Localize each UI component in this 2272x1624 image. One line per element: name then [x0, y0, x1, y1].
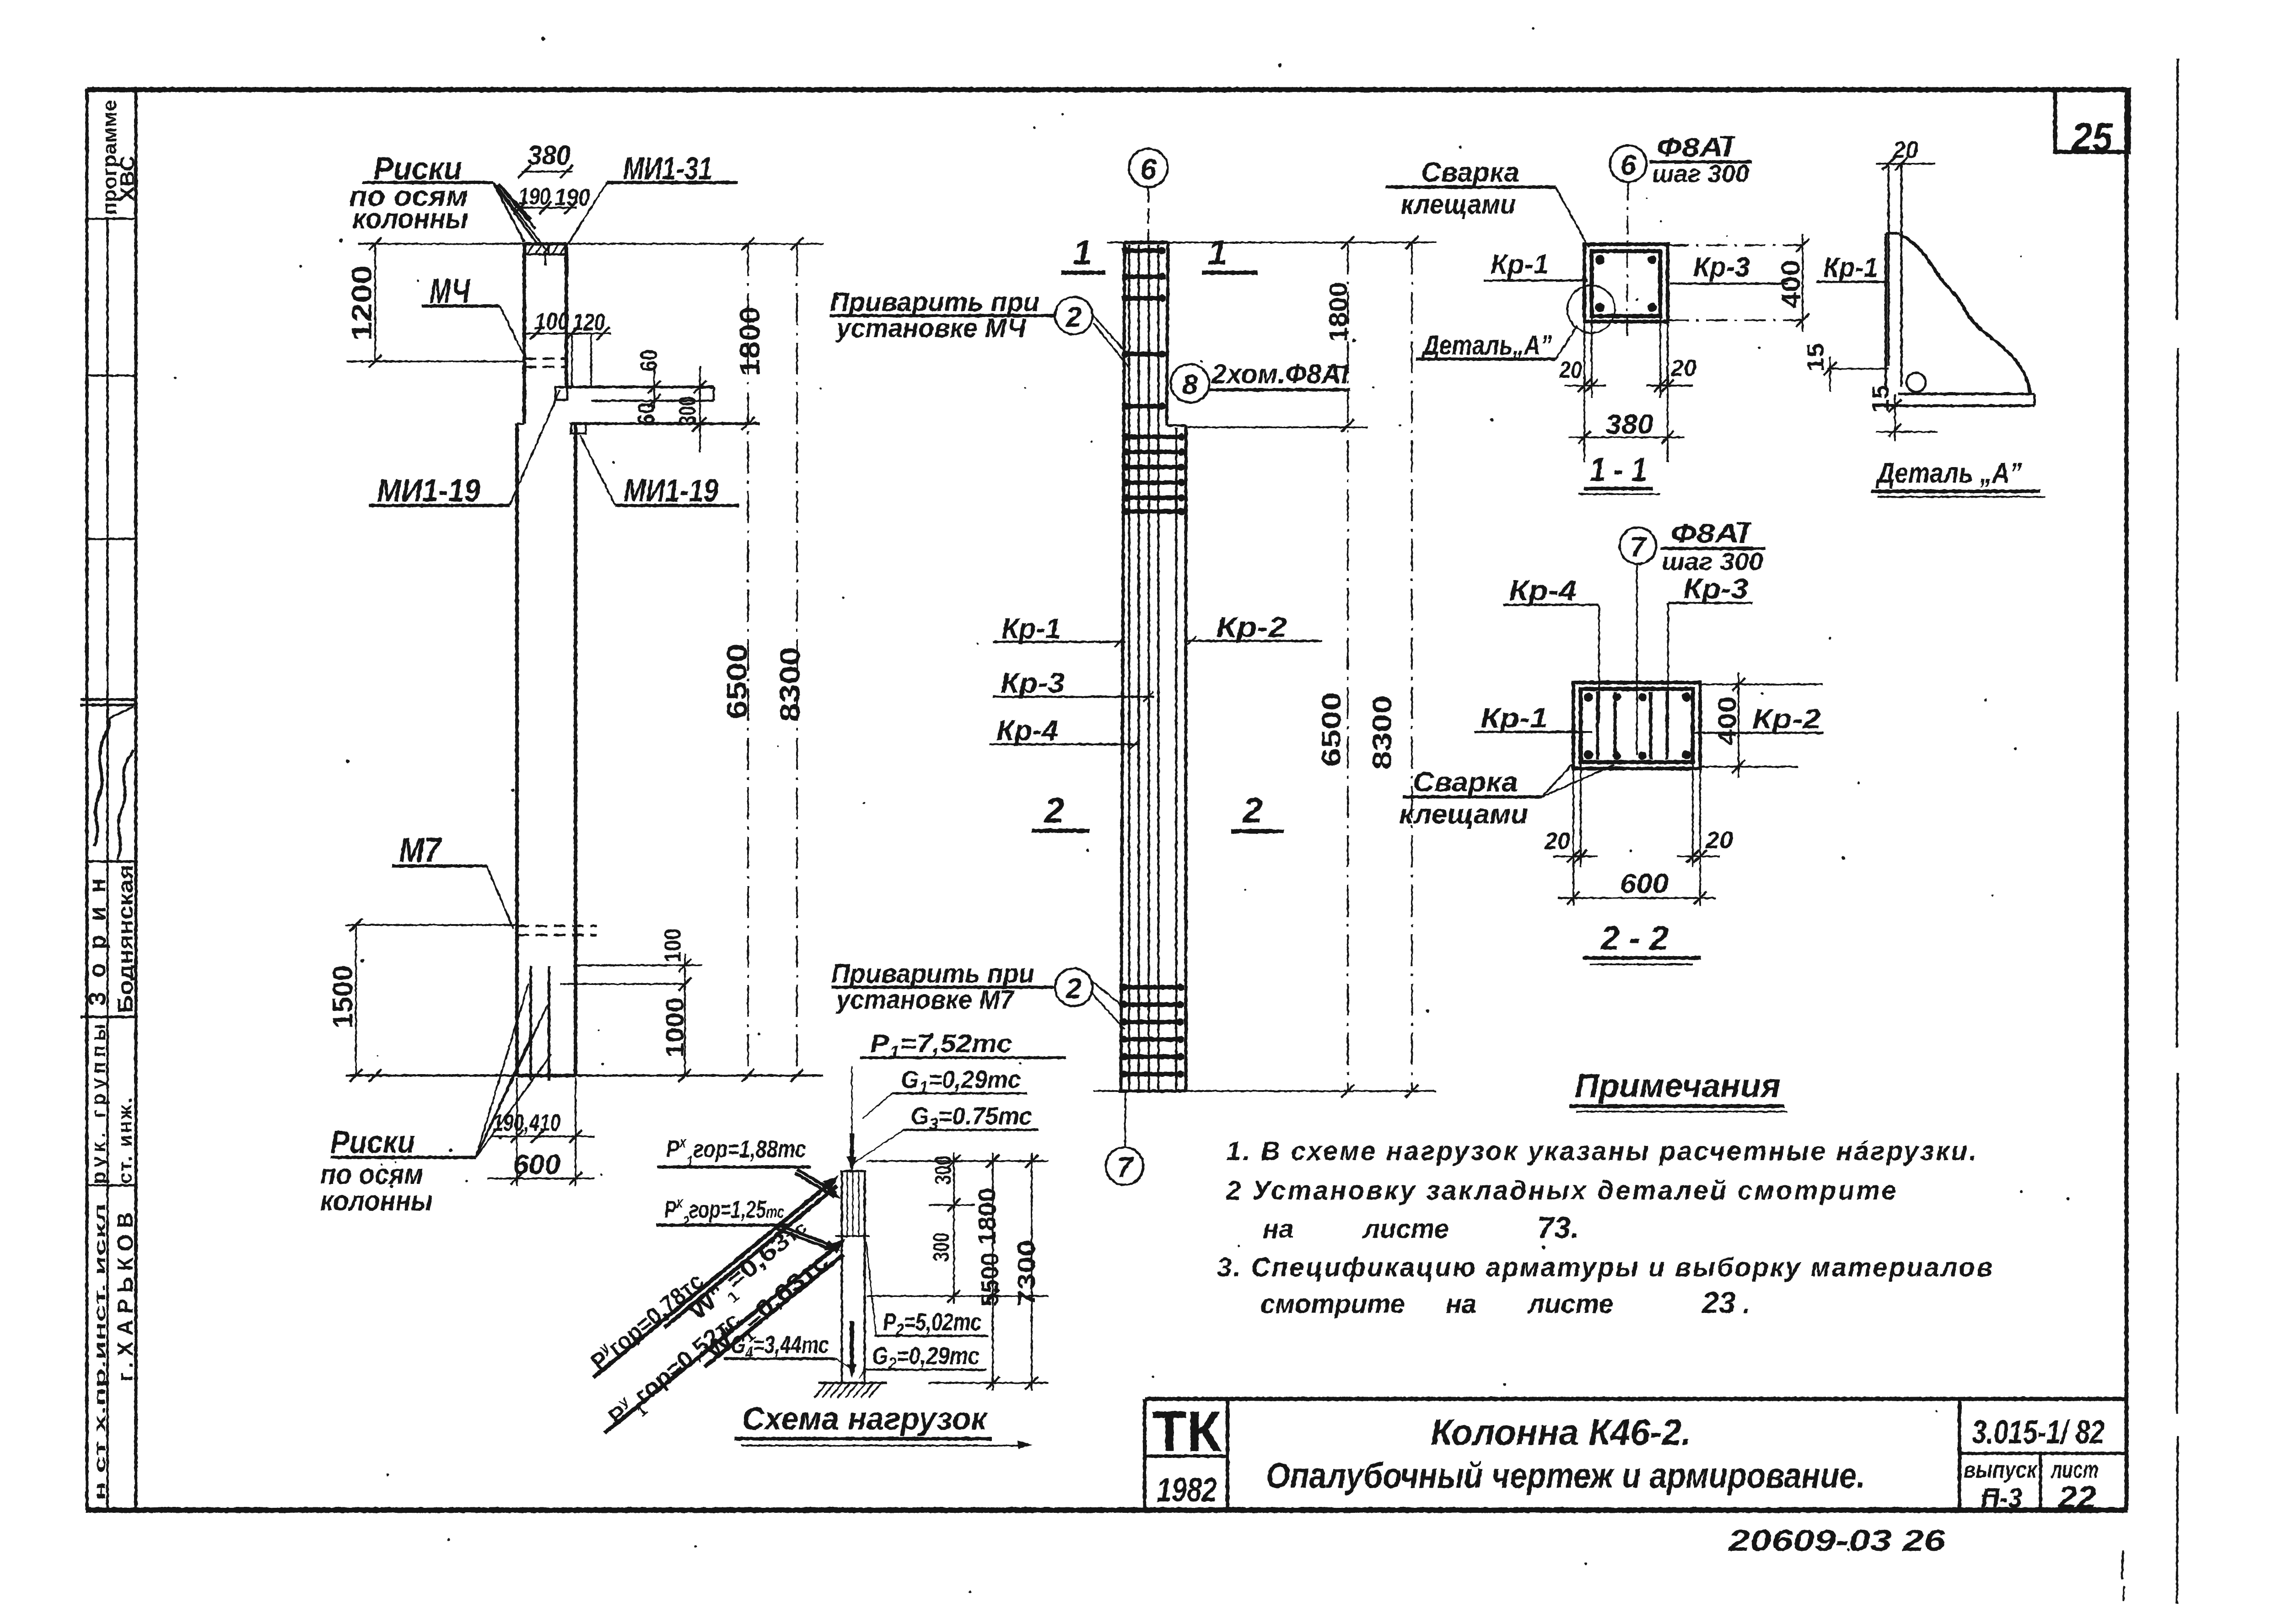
svg-text:15: 15 [1803, 343, 1829, 371]
svg-text:60: 60 [633, 403, 660, 425]
strip signatures [94, 718, 109, 846]
console bottom tick line [692, 419, 705, 432]
svg-text:Сварка: Сварка [1421, 157, 1519, 188]
svg-text:2: 2 [1044, 790, 1064, 830]
MCh plate dashed lines [524, 358, 566, 360]
svg-text:Колонна К46-2.: Колонна К46-2. [1431, 1412, 1691, 1452]
reinforcement column bottom [1119, 1090, 1186, 1093]
svg-text:22: 22 [2057, 1479, 2096, 1515]
svg-text:Опалубочный чертеж и армирован: Опалубочный чертеж и армирование. [1266, 1455, 1865, 1495]
svg-text:Кр-1: Кр-1 [1491, 249, 1549, 280]
svg-text:Кр-4: Кр-4 [996, 715, 1058, 747]
section 2-2 inner stirrups [1596, 692, 1599, 759]
dimension 20 20 section 1-1 [1583, 322, 1585, 462]
vypusk cell [2039, 1453, 2042, 1510]
long wind arrow upper [593, 1181, 833, 1378]
bottom bracket lines 100 dim [576, 964, 702, 966]
svg-text:1800: 1800 [974, 1188, 1001, 1245]
svg-text:300: 300 [674, 396, 701, 425]
circle mark 6 section 1-1 [1610, 145, 1647, 182]
svg-text:МИ1-19: МИ1-19 [624, 473, 718, 508]
svg-text:1000: 1000 [660, 997, 689, 1058]
dimension 600 section 2-2 [1558, 897, 1716, 899]
svg-text:6: 6 [1621, 150, 1637, 181]
svg-text:100: 100 [534, 308, 569, 335]
left strip double divider [81, 698, 136, 701]
dimension 380 at top [522, 171, 573, 172]
svg-text:2: 2 [1066, 973, 1082, 1005]
svg-text:1: 1 [1073, 233, 1092, 272]
svg-text:Деталь „А”: Деталь „А” [1875, 457, 2022, 489]
svg-text:Деталь„А”: Деталь„А” [1421, 330, 1552, 360]
small marks below title block [2122, 1551, 2123, 1579]
long wind arrow lower [605, 1244, 839, 1433]
detail A bolt circle [1906, 373, 1926, 392]
svg-text:Боднянская: Боднянская [113, 865, 137, 1013]
dimension 100 120 over console [526, 333, 611, 334]
svg-text:73.: 73. [1537, 1210, 1579, 1244]
svg-text:Кр-1: Кр-1 [1481, 703, 1548, 733]
scan speckles [1372, 386, 1375, 389]
svg-text:2: 2 [1242, 790, 1262, 830]
dimension 600 bottom [516, 1144, 518, 1186]
circle mark 7 below column [1125, 1091, 1125, 1147]
svg-text:15: 15 [1868, 385, 1894, 413]
svg-text:600: 600 [1620, 868, 1669, 899]
svg-text:6500: 6500 [721, 644, 753, 719]
sheet number box 25 [2055, 90, 2129, 152]
load scheme dim verticals [953, 1153, 955, 1304]
top level dimension line left column [358, 243, 824, 245]
console embedded plate MI1-19 top [555, 387, 567, 400]
svg-text:М7: М7 [399, 831, 442, 870]
svg-text:Примечания: Примечания [1575, 1068, 1781, 1104]
svg-text:клещами: клещами [1401, 189, 1516, 220]
reinforcement bars vertical [1128, 245, 1131, 1090]
svg-text:установке М7: установке М7 [835, 985, 1015, 1015]
svg-text:П-3: П-3 [1981, 1483, 2022, 1513]
svg-text:380: 380 [528, 140, 571, 171]
top axis risk marks [544, 254, 547, 265]
section 1-1 stirrup [1592, 251, 1660, 316]
wind arrow upper second line [664, 1186, 837, 1328]
svg-text:7: 7 [1630, 532, 1647, 563]
svg-text:1500: 1500 [327, 965, 359, 1028]
dimension 1800 middle column [1347, 242, 1349, 1091]
left inventory strip [135, 90, 138, 1510]
svg-text:1200: 1200 [346, 265, 378, 341]
svg-text:400: 400 [1776, 260, 1806, 308]
svg-text:300: 300 [930, 1156, 956, 1185]
section 2-2 rebar dots [1584, 693, 1593, 702]
svg-text:ХВС: ХВС [116, 156, 139, 201]
svg-text:2 - 2: 2 - 2 [1600, 919, 1669, 957]
svg-text:1800: 1800 [734, 307, 766, 376]
load scheme column sketch [841, 1171, 843, 1383]
M7 plate dashed lines [517, 925, 597, 927]
bottom level line middle column [1093, 1090, 1437, 1092]
section 1-1 rebar dots [1595, 255, 1604, 264]
svg-text:20: 20 [1892, 137, 1918, 163]
svg-text:выпуск: выпуск [1964, 1457, 2038, 1483]
circle mark 8 with label [1171, 364, 1209, 403]
svg-text:6: 6 [1140, 153, 1157, 186]
circle mark 6 above reinforcement column [1129, 149, 1168, 187]
svg-text:смотрите: смотрите [1260, 1289, 1405, 1319]
svg-text:120: 120 [573, 309, 605, 336]
leader fan to top risks [493, 183, 524, 242]
svg-text:Кр-3: Кр-3 [1693, 252, 1750, 282]
centerline from circle 7 to section [1636, 564, 1638, 755]
svg-text:колонны: колонны [352, 203, 468, 235]
svg-text:на: на [1446, 1289, 1476, 1319]
svg-text:25: 25 [2071, 114, 2113, 160]
svg-text:Кр-1: Кр-1 [1823, 252, 1878, 283]
bottom risk marks [529, 966, 532, 1081]
svg-text:Кр-2: Кр-2 [1216, 612, 1287, 643]
dimension 190 410 bottom [516, 1078, 518, 1144]
svg-text:шаг 300: шаг 300 [1662, 548, 1763, 575]
svg-text:20609-03 26: 20609-03 26 [1727, 1523, 1946, 1557]
left column formwork elevation outline [522, 244, 526, 424]
svg-text:100: 100 [660, 929, 686, 963]
drawing frame border [87, 87, 2127, 92]
svg-text:5500: 5500 [976, 1253, 1004, 1307]
detail A base plate [1899, 393, 2035, 395]
svg-text:листе: листе [1527, 1289, 1614, 1319]
dimension 1200 vertical [374, 244, 376, 361]
title block outline [1145, 1397, 2127, 1401]
dimension 20 20 section 2-2 [1572, 769, 1574, 906]
svg-text:190: 190 [518, 183, 550, 210]
svg-text:380: 380 [1605, 409, 1653, 440]
svg-text:20: 20 [1670, 355, 1696, 382]
svg-text:Кр-1: Кр-1 [1001, 613, 1061, 645]
svg-text:ТК: ТК [1152, 1400, 1222, 1463]
dimension 1200 lower line [347, 360, 524, 362]
svg-text:Кр-4: Кр-4 [1509, 575, 1577, 607]
detail A bracket outline [1884, 233, 1887, 387]
section 2-2 stirrup [1581, 689, 1693, 762]
svg-text:шаг 300: шаг 300 [1652, 160, 1749, 188]
scan page edge line [2177, 59, 2178, 320]
svg-text:1 - 1: 1 - 1 [1590, 451, 1647, 489]
svg-text:рук. группы: рук. группы [87, 1024, 110, 1184]
svg-text:2: 2 [1066, 301, 1082, 333]
svg-text:300: 300 [928, 1232, 954, 1262]
centerline from circle 6 [1627, 182, 1628, 339]
svg-text:Приварить при: Приварить при [831, 959, 1034, 989]
svg-text:Риски: Риски [330, 1124, 415, 1160]
dimension 8300 left column [796, 244, 798, 1075]
svg-text:20: 20 [1544, 828, 1570, 855]
stirrups step dense zone [1122, 435, 1185, 439]
svg-text:8300: 8300 [775, 647, 806, 722]
column top cap [524, 242, 566, 246]
doc number cell [1958, 1399, 1961, 1510]
circle mark 2 upper [1055, 297, 1093, 334]
svg-text:Сварка: Сварка [1413, 767, 1518, 797]
svg-text:1: 1 [1208, 233, 1227, 272]
console of column [566, 386, 714, 388]
svg-text:7: 7 [1117, 1152, 1134, 1183]
svg-text:МИ1-31: МИ1-31 [623, 151, 712, 186]
load G4 arrow [850, 1321, 854, 1372]
svg-text:8: 8 [1182, 369, 1198, 401]
dimension 1800 6500 left column [747, 244, 749, 1075]
svg-text:1800: 1800 [1324, 282, 1352, 342]
stirrups bottom dense zone [1120, 985, 1184, 989]
dimension 1500 vertical [355, 925, 357, 1075]
section 1-1 outer square [1584, 244, 1668, 322]
detail A vertical plate [1888, 162, 1890, 366]
detail A circle on section [1567, 285, 1615, 333]
step level tick line middle column [1188, 426, 1368, 428]
circle mark 7 section 2-2 [1620, 527, 1656, 564]
dimension 60 60 300 console [653, 366, 655, 408]
svg-text:60: 60 [636, 350, 662, 371]
svg-text:колонны: колонны [320, 1185, 433, 1217]
svg-text:Кр-3: Кр-3 [1683, 573, 1748, 605]
svg-text:190,410: 190,410 [493, 1110, 560, 1136]
leader fan to bottom risks [476, 984, 528, 1157]
dimension 400 section 2-2 [1700, 683, 1823, 685]
arrow P1 gor [795, 1173, 835, 1197]
extension lines 100-120 dim [571, 333, 573, 387]
svg-text:20: 20 [1559, 357, 1582, 383]
svg-text:Приварить при: Приварить при [830, 287, 1039, 317]
svg-text:клещами: клещами [1399, 799, 1528, 829]
svg-text:2 Установку закладных деталей: 2 Установку закладных деталей смотрите [1226, 1176, 1896, 1205]
svg-text:на: на [1263, 1214, 1293, 1244]
reinforcement column step [1167, 425, 1186, 427]
svg-text:МИ1-19: МИ1-19 [377, 473, 480, 508]
svg-text:600: 600 [513, 1149, 560, 1180]
svg-text:установке МЧ: установке МЧ [835, 313, 1027, 343]
svg-text:6500: 6500 [1317, 692, 1346, 767]
svg-text:1982: 1982 [1157, 1471, 1217, 1509]
svg-text:н ст х.пр.инст. искл: н ст х.пр.инст. искл [92, 1203, 109, 1500]
svg-text:20: 20 [1705, 827, 1733, 854]
stirrups upper zone [1122, 248, 1166, 253]
svg-text:Кр-2: Кр-2 [1752, 704, 1821, 734]
svg-text:400: 400 [1712, 696, 1741, 746]
bottom level line left column [345, 1075, 824, 1077]
svg-text:8300: 8300 [1368, 695, 1397, 769]
svg-text:Схема нагрузок: Схема нагрузок [742, 1401, 988, 1436]
arrow P2 gor [777, 1229, 835, 1251]
top level line middle column [1107, 242, 1437, 243]
svg-text:7300: 7300 [1013, 1240, 1040, 1307]
console notch MI1-19 bottom [571, 424, 586, 434]
dimension 20 detail A [1876, 163, 1935, 165]
svg-text:ст. инж.: ст. инж. [114, 1098, 136, 1184]
svg-text:23 .: 23 . [1701, 1285, 1750, 1319]
svg-text:190: 190 [555, 184, 590, 211]
wind arrow lower second line [705, 1254, 844, 1367]
dimension 400 section 1-1 [1668, 244, 1803, 246]
dimension 380 section 1-1 [1568, 436, 1685, 438]
svg-text:листе: листе [1362, 1214, 1449, 1244]
load scheme dim ticks [867, 1160, 1049, 1162]
circle mark 2 lower [1055, 968, 1093, 1006]
load scheme ground line [818, 1382, 887, 1384]
dimension 190 190 [515, 207, 576, 209]
svg-text:3.015-1/ 82: 3.015-1/ 82 [1972, 1414, 2105, 1451]
svg-text:3. Спецификацию арматуры и выб: 3. Спецификацию арматуры и выборку матер… [1217, 1253, 1992, 1282]
reinforcement column outline upper [1121, 242, 1125, 1091]
dimension 8300 middle column [1411, 242, 1413, 1091]
load P1 arrow [851, 1066, 853, 1134]
TK logo box [1226, 1399, 1229, 1510]
section 2-2 outer rect [1573, 683, 1700, 769]
svg-text:Кр-3: Кр-3 [1001, 667, 1065, 699]
svg-text:2хом.Ф8АІ: 2хом.Ф8АІ [1211, 359, 1349, 389]
